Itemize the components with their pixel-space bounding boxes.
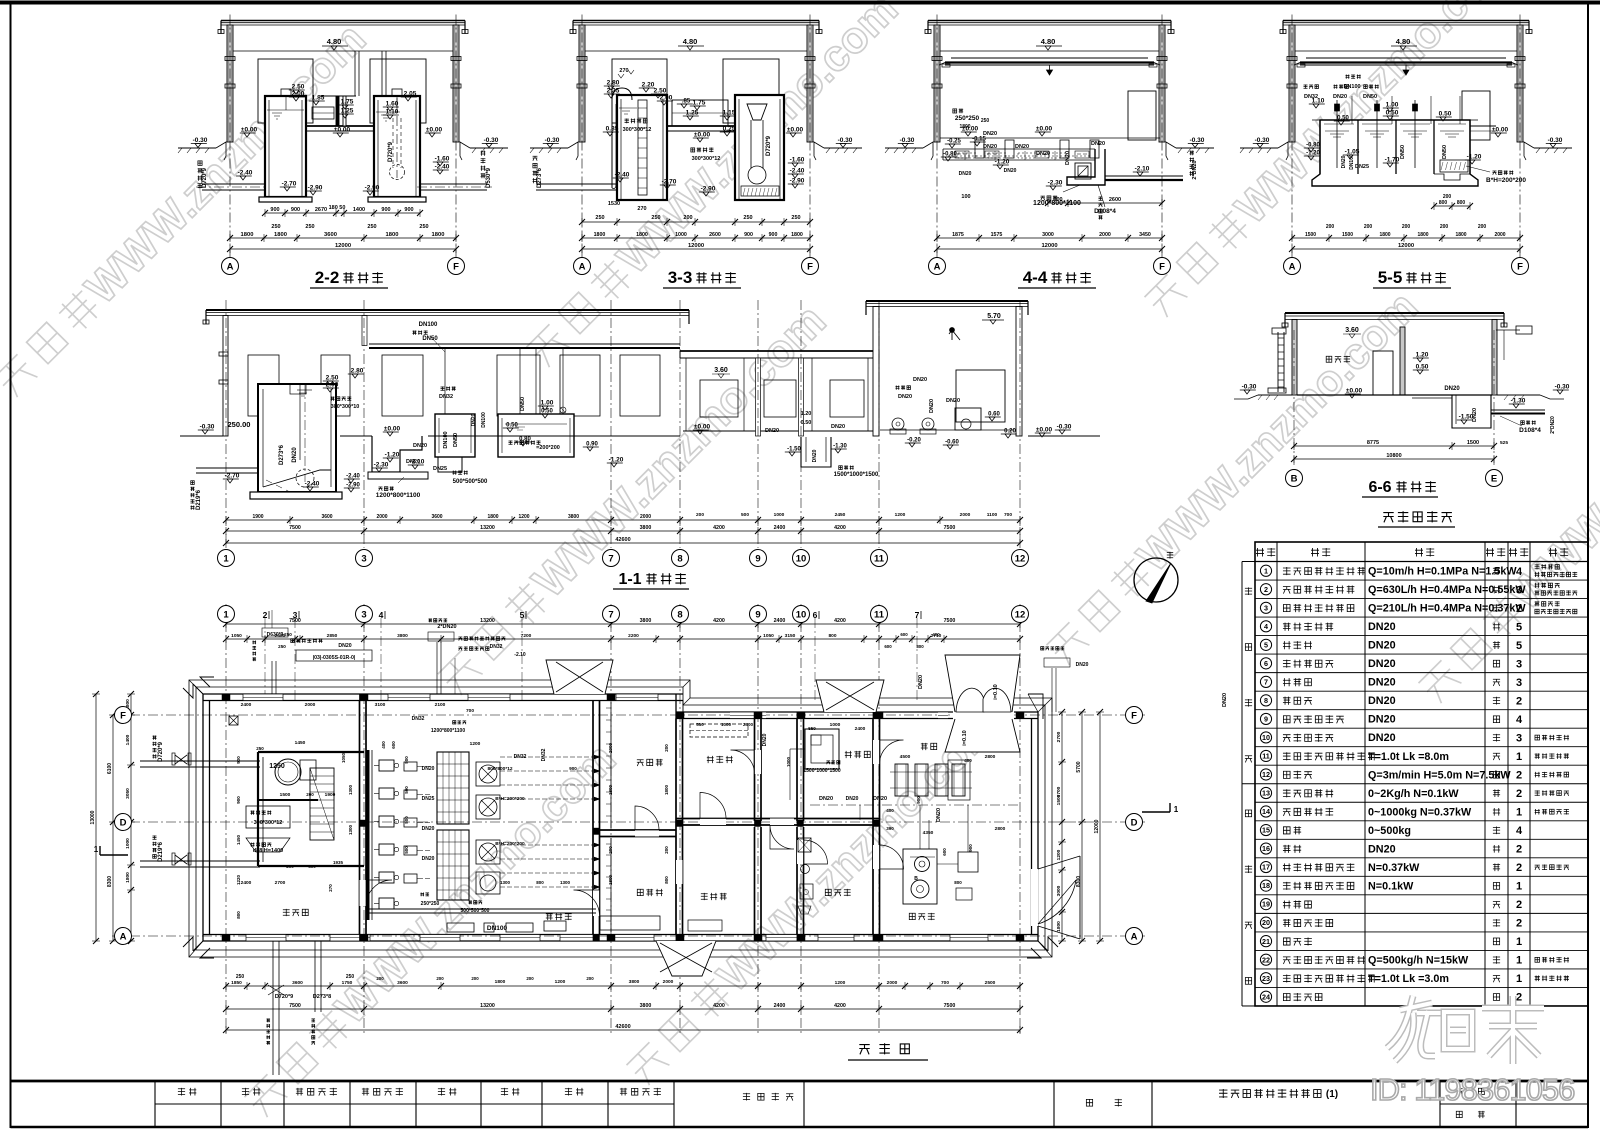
svg-text:500: 500: [404, 846, 409, 854]
section 5-5 door right: [1462, 91, 1490, 140]
svg-text:250: 250: [236, 974, 245, 980]
svg-text:D: D: [120, 817, 127, 828]
svg-text:-0.30: -0.30: [200, 424, 215, 431]
svg-text:3.60: 3.60: [714, 367, 728, 374]
svg-text:2000: 2000: [305, 702, 316, 708]
svg-text:10: 10: [796, 553, 807, 564]
section 5-5 grid bubble F: [1512, 258, 1529, 275]
section 4-4 ground line left: [885, 147, 923, 149]
crane hook: [1403, 65, 1409, 75]
svg-text:3450: 3450: [1139, 232, 1151, 238]
svg-text:1800: 1800: [274, 232, 287, 238]
svg-text:3050: 3050: [125, 788, 131, 799]
section 1-1 left building roof: [206, 309, 689, 311]
plan bottom pipes exiting: [272, 941, 274, 1075]
svg-text:-2.30: -2.30: [1048, 180, 1063, 187]
svg-text:0.80: 0.80: [519, 437, 531, 443]
svg-text:8: 8: [677, 553, 682, 564]
svg-text:DN20: DN20: [846, 796, 859, 802]
svg-text:±0.00: ±0.00: [694, 424, 711, 431]
section 3-3 level -0.30 right: [836, 143, 852, 145]
section 2-2 agitator motor right: [392, 89, 402, 96]
svg-text:1: 1: [1516, 751, 1522, 763]
svg-text:250: 250: [419, 224, 428, 230]
svg-text:DN20: DN20: [812, 449, 818, 462]
svg-text:4200: 4200: [713, 525, 725, 531]
svg-text:1200: 1200: [555, 979, 566, 985]
svg-text:250: 250: [278, 644, 286, 649]
equipment table row 6: [1255, 672, 1588, 674]
plan door gaps white patches: [700, 819, 726, 826]
plan stairs: [310, 768, 334, 840]
svg-text:Q=210L/h H=0.4MPa N=0.37kW: Q=210L/h H=0.4MPa N=0.37kW: [1368, 603, 1526, 615]
section 2-2 window right: [370, 59, 426, 123]
svg-text:3800: 3800: [568, 514, 579, 520]
svg-text:DN50: DN50: [1442, 145, 1448, 159]
plan room label chlorine dosing room: [845, 751, 852, 758]
section 3-3 tall tank left: [617, 95, 667, 200]
svg-text:DN25: DN25: [422, 796, 435, 802]
svg-text:400: 400: [308, 864, 316, 869]
section 5-5 level -0.30 right: [1546, 143, 1562, 145]
svg-text:0.50: 0.50: [506, 423, 518, 429]
svg-text:±0.00: ±0.00: [787, 127, 804, 134]
section 3-3 window left: [612, 59, 667, 123]
svg-text:3800: 3800: [640, 618, 652, 624]
svg-text:Q=3m/min H=5.0m N=7.5kW: Q=3m/min H=5.0m N=7.5kW: [1368, 769, 1511, 781]
section 1-1 low interior walls: [756, 358, 761, 436]
svg-text:-2.90: -2.90: [790, 178, 805, 185]
svg-text:250: 250: [305, 224, 314, 230]
section 4-4 equipment pedestals: [975, 140, 984, 158]
svg-text:-0.30: -0.30: [484, 137, 499, 144]
equipment table row 5: [1255, 653, 1588, 655]
svg-text:±0.00: ±0.00: [1036, 126, 1053, 133]
svg-text:270: 270: [328, 884, 333, 892]
svg-text:DN20: DN20: [1065, 151, 1071, 165]
plan top exterior wall right block: [676, 711, 1038, 713]
section 5-5 tank battery outer: [1312, 120, 1478, 186]
section 1-1 left tank base: [250, 492, 342, 499]
equipment table row 14: [1255, 820, 1588, 822]
svg-text:200: 200: [471, 976, 479, 981]
svg-text:DN20: DN20: [413, 443, 427, 449]
svg-text:4200: 4200: [834, 1003, 846, 1009]
svg-text:1200: 1200: [895, 512, 906, 518]
svg-text:20: 20: [1262, 918, 1270, 927]
plan dosing pipes to rooms: [500, 756, 600, 758]
svg-text:A: A: [579, 261, 586, 272]
svg-text:2-2: 2-2: [315, 268, 340, 287]
svg-text:12000: 12000: [1094, 819, 1100, 833]
svg-text:2000: 2000: [640, 514, 651, 520]
svg-text:1800: 1800: [241, 232, 254, 238]
svg-text:4200: 4200: [713, 1003, 725, 1009]
svg-text:±0.00: ±0.00: [241, 127, 258, 134]
svg-text:200: 200: [526, 976, 534, 981]
plan room label neutralization: [909, 913, 915, 919]
section 4-4 grid bubble A: [929, 258, 946, 275]
svg-text:2670: 2670: [315, 207, 327, 213]
plan title: [859, 1045, 869, 1055]
section 6-6 interior wall: [1400, 327, 1405, 395]
svg-text:1800: 1800: [959, 124, 970, 130]
svg-text:600: 600: [391, 741, 396, 749]
svg-text:10: 10: [1262, 733, 1270, 742]
svg-text:0.90: 0.90: [586, 442, 598, 448]
svg-text:DN20: DN20: [959, 171, 972, 177]
section 2-2 ceiling line: [233, 50, 453, 52]
svg-text:200: 200: [1364, 224, 1373, 230]
svg-text:1300: 1300: [500, 880, 511, 885]
svg-text:DN20: DN20: [1333, 94, 1347, 100]
svg-text:1200: 1200: [518, 514, 529, 520]
section 6-6 door: [1373, 351, 1393, 395]
svg-text:600: 600: [900, 632, 908, 637]
plan chlorine cylinders: [895, 764, 908, 796]
section 2-2 grid bubble A: [222, 258, 239, 275]
svg-text:2000: 2000: [376, 514, 387, 520]
svg-text:D720*9: D720*9: [158, 741, 164, 762]
svg-text:DN50: DN50: [1363, 94, 1377, 100]
title block serial no label: [1456, 1111, 1462, 1117]
svg-text:1500*1000*1500: 1500*1000*1500: [834, 472, 879, 478]
section 4-4 axis centerlines: [936, 15, 938, 259]
section 5-5 right column: [1517, 25, 1523, 142]
section 4-4 pit labels: [1041, 196, 1045, 200]
svg-text:-0.80: -0.80: [943, 152, 957, 158]
svg-text:D720*9: D720*9: [275, 994, 293, 1000]
plan grid bubbles right: [1126, 707, 1143, 724]
svg-text:12000: 12000: [1041, 243, 1057, 249]
svg-text:4200: 4200: [834, 525, 846, 531]
svg-text:A: A: [227, 261, 234, 272]
svg-text:13000: 13000: [90, 810, 96, 824]
svg-text:600: 600: [942, 848, 947, 856]
plan door arcs interior: [700, 793, 726, 819]
plan funnel door bottom: [656, 941, 716, 976]
section 5-5 sump pit: [1434, 174, 1470, 180]
svg-text:D720*9: D720*9: [766, 135, 772, 156]
svg-text:1750: 1750: [342, 980, 353, 986]
svg-text:500: 500: [741, 512, 749, 518]
svg-text:250: 250: [346, 974, 355, 980]
svg-text:250: 250: [651, 215, 660, 221]
svg-text:3150: 3150: [785, 633, 796, 639]
svg-text:DN25: DN25: [1355, 164, 1369, 170]
section 3-3 ceiling line: [585, 50, 807, 52]
svg-text:1300: 1300: [560, 880, 571, 885]
plan room label chlorine store: [921, 743, 928, 750]
svg-text:F: F: [120, 710, 126, 721]
section 6-6 axes: [1293, 330, 1295, 465]
section 2-2 pipe right: [420, 183, 487, 185]
section 5-5 vertical pipes: [1351, 96, 1353, 124]
svg-text:1: 1: [223, 609, 229, 620]
section 3-3 ground line right: [824, 147, 862, 149]
watermark band table-right: [1410, 320, 1600, 709]
section 2-2 window left: [258, 59, 313, 123]
plan corner X box: [229, 716, 238, 725]
svg-text:1050: 1050: [341, 752, 346, 763]
plan bottom dim main: [226, 1008, 1020, 1010]
svg-text:DN32: DN32: [490, 644, 503, 650]
svg-text:1: 1: [1516, 807, 1522, 819]
svg-text:1800: 1800: [664, 784, 669, 795]
section 5-5 floor right: [1470, 125, 1496, 127]
svg-text:DN100: DN100: [419, 322, 438, 328]
svg-text:3800: 3800: [640, 1003, 652, 1009]
equipment table row 19: [1255, 912, 1588, 914]
section 2-2 level -0.30 right: [482, 143, 498, 145]
section 4-4 grid bubble F: [1154, 258, 1171, 275]
plan section cut mark right: [1142, 811, 1170, 813]
svg-text:-1.20: -1.20: [385, 452, 400, 459]
sheet border right line: [1587, 1, 1589, 1128]
title block sheet no label: [1456, 1089, 1463, 1095]
svg-text:-2.90: -2.90: [308, 185, 323, 192]
plan bottom dim sub: [226, 985, 1020, 987]
svg-text:DN20: DN20: [831, 424, 845, 430]
svg-text:500: 500: [404, 786, 409, 794]
svg-text:900: 900: [236, 756, 241, 764]
svg-text:A: A: [120, 931, 127, 942]
plan agitator middle: [476, 795, 500, 819]
svg-text:-2.40: -2.40: [435, 164, 450, 171]
section 6-6 ground: [1258, 394, 1292, 396]
equipment table row 13: [1255, 801, 1588, 803]
svg-text:1200: 1200: [1056, 849, 1062, 860]
svg-text:F: F: [453, 261, 459, 272]
svg-text:10800: 10800: [1386, 453, 1401, 459]
svg-text:-2.70: -2.70: [662, 179, 677, 186]
svg-text:1800: 1800: [1056, 921, 1062, 932]
svg-text:200: 200: [376, 976, 384, 981]
svg-text:23: 23: [1262, 974, 1270, 983]
svg-text:900: 900: [270, 207, 279, 213]
plan window openings top wall: [243, 694, 283, 701]
section 5-5 roof slab: [1283, 20, 1529, 22]
svg-text:-0.25: -0.25: [947, 139, 961, 145]
svg-text:11: 11: [874, 609, 885, 620]
svg-text:-2.10: -2.10: [1135, 166, 1150, 173]
plan interior wall x876: [872, 719, 874, 935]
svg-text:800: 800: [1439, 200, 1448, 206]
svg-text:3: 3: [361, 553, 366, 564]
svg-text:2600: 2600: [1109, 197, 1121, 203]
section 3-3 sludge hatch: [741, 186, 779, 196]
svg-text:4.80: 4.80: [1396, 37, 1411, 46]
svg-text:D108*4: D108*4: [1519, 427, 1541, 434]
svg-text:DN20: DN20: [1368, 677, 1396, 689]
svg-text:1000: 1000: [125, 838, 131, 849]
svg-text:-2.10: -2.10: [514, 652, 526, 658]
svg-text:390: 390: [886, 826, 894, 831]
plan top annotations mid: [436, 642, 438, 694]
svg-text:7500: 7500: [944, 525, 956, 531]
section 3-3 grid bubble A: [574, 258, 591, 275]
svg-text:ID: 1198361056: ID: 1198361056: [1370, 1072, 1574, 1107]
svg-text:T=1.0t Lk =3.0m: T=1.0t Lk =3.0m: [1368, 973, 1449, 985]
svg-text:2400: 2400: [774, 618, 786, 624]
svg-text:3: 3: [1516, 584, 1522, 596]
section 3-3 mixer label: [625, 119, 629, 124]
svg-text:DN20: DN20: [422, 826, 435, 832]
svg-text:300*300*12: 300*300*12: [692, 156, 721, 162]
sheet border left line: [10, 1, 12, 1128]
svg-text:3: 3: [1264, 603, 1268, 612]
svg-text:DN20: DN20: [422, 766, 435, 772]
plan interior wall x758 lower: [754, 827, 756, 935]
svg-text:6100: 6100: [107, 763, 113, 774]
svg-text:200: 200: [1443, 194, 1452, 200]
section 3-3 left column: [579, 25, 585, 142]
svg-text:DN20: DN20: [819, 796, 833, 802]
svg-text:DN20: DN20: [1368, 695, 1396, 707]
svg-text:DN20: DN20: [936, 808, 942, 822]
svg-text:DN100: DN100: [443, 431, 449, 448]
svg-text:200: 200: [286, 864, 294, 869]
svg-text:3600: 3600: [321, 514, 332, 520]
section 1-1 right tall building: [866, 300, 1028, 302]
section 6-6 left wall: [1292, 320, 1297, 396]
svg-text:0~500kg: 0~500kg: [1368, 825, 1411, 837]
svg-text:800: 800: [828, 633, 836, 639]
section 1-1 left wall: [223, 316, 228, 437]
svg-text:DN100: DN100: [481, 412, 487, 428]
section 2-2 tank right: [374, 96, 420, 197]
svg-text:2: 2: [263, 610, 268, 620]
plan room label duty room: [701, 893, 708, 900]
svg-text:1.15: 1.15: [723, 110, 736, 117]
svg-text:1500: 1500: [280, 792, 291, 798]
svg-text:D273*6: D273*6: [279, 444, 285, 465]
section 1-1 grid bubbles: [218, 550, 235, 567]
section 5-5 level -0.30 left: [1253, 143, 1269, 145]
svg-text:-0.30: -0.30: [1548, 137, 1563, 144]
section 6-6 room label control room: [1326, 356, 1332, 362]
svg-text:3800: 3800: [397, 633, 408, 639]
svg-text:1.85: 1.85: [312, 95, 325, 102]
svg-text:700: 700: [466, 708, 474, 714]
plan dosing tanks lower: [437, 830, 469, 900]
svg-text:2400: 2400: [241, 702, 252, 708]
equipment table row 16: [1255, 857, 1588, 859]
svg-text:4: 4: [1516, 566, 1523, 578]
svg-text:-0.30: -0.30: [1555, 384, 1570, 391]
section 3-3 hopper funnel: [747, 104, 767, 120]
svg-text:1000: 1000: [774, 512, 785, 518]
svg-text:1: 1: [223, 553, 229, 564]
svg-text:1800: 1800: [636, 232, 648, 238]
svg-text:Q=630L/h H=0.4MPa N=0.55kW: Q=630L/h H=0.4MPa N=0.55kW: [1368, 584, 1526, 596]
svg-text:1575: 1575: [991, 232, 1003, 238]
watermark band bottom-center: [618, 702, 1007, 1091]
svg-text:-0.30: -0.30: [193, 137, 208, 144]
svg-text:1.20: 1.20: [801, 411, 812, 417]
svg-text:-2.40: -2.40: [790, 168, 805, 175]
svg-text:-0.30: -0.30: [900, 137, 915, 144]
equipment table group label chlorine system: [1245, 810, 1251, 817]
svg-text:1000: 1000: [721, 722, 732, 727]
svg-text:DN20: DN20: [873, 796, 887, 802]
plan room label control room: [825, 889, 831, 895]
svg-text:12000: 12000: [1398, 243, 1414, 249]
svg-text:22: 22: [1262, 955, 1270, 964]
section 6-6 exterior ladder: [1277, 332, 1279, 392]
svg-text:3800: 3800: [629, 979, 640, 985]
svg-text:900: 900: [236, 796, 241, 804]
svg-text:200: 200: [436, 976, 444, 981]
svg-text:DN20: DN20: [1368, 714, 1396, 726]
plan room divider pumps area vertical header: [367, 750, 370, 920]
svg-text:24: 24: [1262, 992, 1270, 1001]
svg-text:0.50: 0.50: [1439, 111, 1452, 118]
svg-text:250: 250: [367, 224, 376, 230]
svg-text:300*300*12: 300*300*12: [623, 127, 652, 133]
svg-text:800*800*12: 800*800*12: [487, 766, 512, 772]
svg-text:2850: 2850: [327, 633, 338, 639]
svg-text:3000: 3000: [1042, 232, 1054, 238]
svg-text:-2.90: -2.90: [701, 186, 716, 193]
svg-text:3600: 3600: [431, 514, 442, 520]
svg-text:DN20: DN20: [946, 398, 960, 404]
svg-text:DN20: DN20: [1368, 621, 1396, 633]
plan left dim chains: [130, 694, 132, 941]
plan pump cluster column B: [404, 762, 417, 771]
svg-text:D530*9: D530*9: [486, 167, 492, 188]
svg-text:7: 7: [608, 553, 613, 564]
svg-text:200: 200: [664, 846, 669, 854]
plan section cut mark left: [100, 854, 128, 856]
section 1-1 ground right: [1028, 435, 1100, 437]
section 2-2 middle channel floor: [306, 125, 374, 127]
svg-text:B*H=200*200: B*H=200*200: [1486, 177, 1526, 184]
svg-text:A: A: [1289, 261, 1296, 272]
equipment table row 9: [1255, 727, 1588, 729]
svg-text:250: 250: [271, 224, 280, 230]
svg-text:1400: 1400: [125, 734, 131, 745]
section 4-4 floor pipe dotted: [948, 155, 1090, 157]
section 6-6 right wall: [1492, 320, 1497, 396]
svg-text:T=1.0t Lk =8.0m: T=1.0t Lk =8.0m: [1368, 751, 1449, 763]
svg-text:DN20: DN20: [1368, 732, 1396, 744]
section 3-3 grid bubble F: [802, 258, 819, 275]
svg-text:700: 700: [1004, 512, 1012, 518]
svg-text:4350: 4350: [923, 830, 934, 836]
svg-text:DN20: DN20: [1091, 141, 1105, 147]
svg-text:A: A: [934, 261, 941, 272]
svg-text:2000: 2000: [1099, 232, 1111, 238]
plan water room lower equipment: [246, 806, 290, 828]
plan window openings bottom wall: [246, 935, 286, 942]
svg-text:0.25: 0.25: [723, 126, 736, 133]
section 1-1 valve stem: [560, 407, 566, 413]
equipment table row 24: [1255, 1005, 1588, 1007]
plan big door chlorine store top-right: [953, 710, 1014, 720]
watermark big zhimo glyph 2: [1482, 996, 1544, 1064]
plan water room inner box: [258, 752, 364, 866]
svg-text:550: 550: [808, 726, 816, 731]
svg-text:1500: 1500: [1467, 440, 1479, 446]
svg-text:3100: 3100: [375, 702, 386, 708]
sheet border top line: [0, 1, 1600, 5]
svg-text:DN20: DN20: [983, 144, 997, 150]
section 5-5 basin label: [1493, 171, 1497, 175]
equipment table row 23: [1255, 986, 1588, 988]
watermark band top-left corner: [0, 14, 375, 403]
section 6-6 pipe right of pit: [1491, 409, 1545, 411]
